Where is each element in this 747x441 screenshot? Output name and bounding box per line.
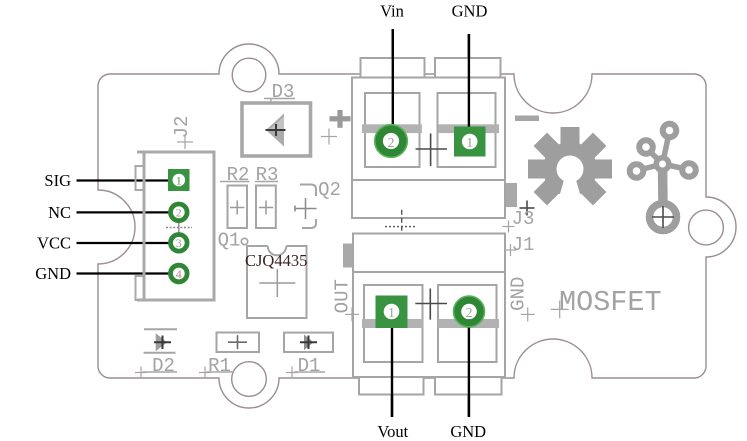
J2 pin 2 [171,204,188,221]
svg-text:GND: GND [35,264,71,283]
svg-text:GND: GND [508,277,530,311]
transistor Q2 marks [300,185,316,197]
wire Vin tail [392,29,394,127]
terminal pad 2 (Vin) [379,129,403,153]
top tab left [361,58,425,78]
svg-text:Vin: Vin [380,2,404,21]
top tab right [435,58,501,78]
wire Vin [392,29,394,127]
transistor Q1 package [247,246,307,318]
minus marker [515,116,539,122]
gear icon [528,127,612,205]
svg-text:J3: J3 [512,208,535,230]
svg-text:Q1: Q1 [218,230,241,252]
diode D2 [144,328,177,330]
svg-text:3: 3 [176,236,182,250]
svg-text:GND: GND [452,2,488,21]
wire GND left [77,272,171,274]
bottom tab right [435,377,502,395]
svg-text:Vout: Vout [377,422,408,441]
bottom cell right [438,285,497,362]
svg-text:D3: D3 [272,81,295,103]
svg-text:NC: NC [48,203,71,222]
svg-text:2: 2 [176,206,182,220]
top cell left [365,93,420,167]
diode D1 [284,333,333,352]
top cell right [438,93,496,167]
wire GND top [468,34,470,127]
seeed logo [630,124,696,206]
svg-text:VCC: VCC [37,234,71,253]
gray tab left of bottom block [343,244,353,268]
wire VCC [77,242,171,244]
svg-text:J1: J1 [512,234,535,256]
svg-text:SIG: SIG [44,171,71,190]
svg-text:R3: R3 [256,164,279,186]
svg-text:R1: R1 [208,355,231,377]
svg-text:D1: D1 [298,355,321,377]
gray tab right of top block [506,183,517,207]
bottom bar left [362,319,423,328]
bottom cell left [364,285,423,362]
resistor R3 [256,186,276,229]
svg-text:2: 2 [388,136,395,151]
wire Vout [391,327,393,417]
svg-text:1: 1 [176,173,182,187]
svg-text:4: 4 [176,267,182,281]
D3 cross [266,129,286,131]
wire NC [77,211,171,213]
terminal pad 1 (GND) [454,127,486,157]
terminal block top body [352,78,505,219]
connector J2 body [144,152,214,300]
resistor R1 [217,333,260,353]
terminal block bottom body [353,234,505,378]
svg-text:2: 2 [466,306,473,321]
J2 pin 3 [171,235,188,252]
wire SIG [77,179,173,181]
mounting hole right [689,210,724,245]
J2 pin 4 [171,265,188,282]
center dashed marker [401,210,403,242]
top block anchor cross [416,148,448,150]
J2 pin 1 [168,169,190,191]
J2 anchor cross [177,141,193,143]
terminal pad 1 (Vout) [376,296,408,329]
svg-text:1: 1 [466,136,473,151]
top bar left [362,124,422,133]
svg-text:MOSFET: MOSFET [559,286,662,319]
svg-text:D2: D2 [152,355,175,377]
svg-text:CJQ4435: CJQ4435 [245,251,307,270]
svg-text:R2: R2 [227,164,250,186]
board outline [98,44,736,408]
top bar right [438,124,499,133]
svg-text:J2: J2 [171,116,193,139]
wire Vout tail [391,327,393,417]
J3 cross [520,207,535,209]
bottom tab left [359,377,424,395]
svg-text:OUT: OUT [331,279,353,313]
resistor R2 [228,186,248,229]
svg-text:GND: GND [450,422,486,441]
bottom block anchor cross [415,303,447,305]
J2 tab top [136,166,145,190]
plus marker [330,116,351,121]
diode D3 body [242,103,311,156]
J2 pin2-pin3 marker [166,227,192,229]
wire GND bottom [468,326,470,417]
mounting hole bottom [232,362,267,397]
J2 tab bottom [136,276,145,300]
mounting hole top [232,58,266,92]
terminal pad 2 (GND) [457,300,480,323]
bottom bar right [438,319,499,328]
svg-text:Q2: Q2 [318,179,341,201]
D3 triangle [266,114,284,147]
svg-text:1: 1 [388,306,395,321]
